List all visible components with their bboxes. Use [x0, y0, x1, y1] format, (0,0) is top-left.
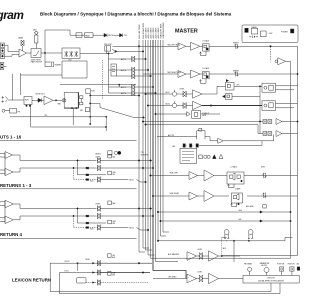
return1 branch wires: [73, 160, 106, 181]
return1 aux pot: [90, 177, 146, 183]
afl mix wire: [157, 134, 197, 137]
svg-text:+: +: [190, 195, 191, 197]
return1 wire R: [13, 168, 97, 172]
phones icon 1: [224, 230, 229, 239]
junction mix left: [138, 46, 140, 48]
master row2 sum amp: [178, 71, 186, 78]
lex R junction: [77, 263, 78, 271]
master row3 out wire: [202, 86, 226, 94]
svg-text:SUB: SUB: [112, 273, 115, 275]
junction fader: [55, 100, 56, 101]
return4 input stubs: [0, 201, 5, 223]
insert loop vertical: [20, 73, 22, 95]
mon jack R: [262, 193, 266, 198]
return4 level label: [96, 201, 116, 205]
master row3 wire AUX1 MASTER: [145, 93, 173, 95]
footswitch box: [77, 278, 98, 283]
phones wires: [248, 238, 249, 241]
svg-text:AUX MASTER: AUX MASTER: [168, 253, 180, 256]
bus SUB R: [163, 22, 169, 232]
input XLR J1: [1, 43, 5, 48]
svg-text:LEVEL: LEVEL: [198, 249, 203, 251]
section divider 1: [0, 139, 137, 141]
channel amp U2: [44, 96, 53, 105]
master row1 out wire: [209, 43, 297, 49]
section divider 2: [0, 188, 137, 190]
post fade wire: [60, 84, 136, 87]
lexret sub switch: [108, 272, 116, 277]
svg-text:+: +: [188, 277, 189, 279]
svg-text:LEX: LEX: [112, 255, 115, 257]
master row1 sum amp: [178, 43, 186, 50]
master row3 amp: [186, 90, 202, 98]
aux pre post box: [111, 64, 116, 76]
phantom 48V: [33, 30, 38, 49]
aux6 pot: [109, 90, 157, 96]
tape feed wires: [142, 121, 263, 134]
svg-text:MUTE: MUTE: [108, 35, 114, 37]
wire mix feed diagonal: [90, 104, 144, 119]
svg-text:MIX LEFT BUS: MIX LEFT BUS: [139, 24, 141, 39]
fade switch: [76, 33, 93, 38]
record amp U5: [270, 46, 291, 65]
bus AUX6: [157, 27, 160, 241]
2tk return jack: [223, 94, 261, 100]
return1 amp L: [5, 152, 13, 159]
wire mic to preamp: [5, 45, 20, 51]
svg-text:AUX 5: AUX 5: [121, 86, 126, 89]
right edge bus: [297, 46, 298, 255]
svg-text:MIX: MIX: [112, 275, 115, 277]
wire preamp to HPF: [27, 52, 32, 54]
pan node: [58, 99, 66, 106]
svg-text:AFL PFL: AFL PFL: [168, 134, 175, 137]
monitor row SUB LEFT: [150, 173, 189, 177]
aux1 pot: [109, 56, 147, 62]
insert jack left: [0, 63, 6, 70]
bus SUB L: [160, 23, 166, 236]
return4 aux pot: [90, 225, 149, 231]
svg-text:PFL: PFL: [45, 115, 48, 117]
wire pan to mix right bus: [117, 50, 143, 52]
master row1 output jack: [200, 39, 210, 51]
svg-text:GAIN: GAIN: [18, 37, 23, 40]
aux out jack: [226, 79, 235, 90]
power supply box: [242, 25, 298, 43]
svg-text:MONITOR: MONITOR: [141, 154, 149, 156]
svg-text:RETURN 4: RETURN 4: [0, 232, 23, 237]
lexicon button 2: [288, 264, 295, 276]
mute switch glyphs: [2, 96, 8, 102]
svg-text:SUB: SUB: [113, 172, 116, 174]
svg-text:INSERT: INSERT: [55, 65, 62, 67]
svg-text:RETURNS 1 - 3: RETURNS 1 - 3: [0, 183, 32, 188]
svg-text:LEXICON: LEXICON: [267, 278, 275, 280]
master row4 out wire thick: [202, 105, 262, 107]
master row2 output jack: [200, 67, 210, 79]
master row4 amp: [186, 101, 202, 109]
svg-text:INSERT: INSERT: [233, 43, 239, 45]
routing junctions: [71, 107, 77, 108]
insert jack: [45, 53, 62, 67]
phones select row: [173, 144, 199, 148]
junction afl: [105, 126, 106, 127]
routing box: [64, 92, 78, 108]
svg-text:gram: gram: [0, 8, 23, 22]
insert return vertical: [11, 74, 13, 100]
svg-text:+: +: [188, 255, 189, 257]
master row4 wire AUX2 MASTER: [147, 105, 172, 107]
svg-text:PFL: PFL: [18, 111, 21, 113]
mute diode D1: [104, 33, 114, 37]
svg-text:POWER: POWER: [281, 31, 288, 33]
wire to fader: [8, 99, 24, 101]
svg-text:AUX 2: AUX 2: [121, 69, 126, 72]
lexret pot L: [97, 270, 150, 276]
junction insert: [44, 52, 45, 53]
speaker box L: [227, 166, 298, 188]
lexret pot FS: [97, 280, 148, 286]
bus AUX1: [144, 27, 152, 250]
bus MIX LEFT: [139, 24, 145, 252]
lexicon send row: [153, 272, 243, 284]
return1 input stubs: [0, 153, 5, 176]
wire line to preamp: [5, 55, 20, 57]
lexicon processor box: [243, 275, 299, 283]
wire diode to amp: [32, 99, 44, 101]
tape out box B: [262, 101, 298, 111]
lexicon button 1: [277, 264, 284, 276]
section divider 3: [0, 237, 137, 239]
mon jack L: [261, 167, 266, 179]
wire sub feed: [90, 95, 140, 97]
svg-text:UTS 1 - 16: UTS 1 - 16: [0, 135, 22, 140]
svg-text:LEX L: LEX L: [65, 271, 70, 273]
fader box: [24, 97, 32, 107]
aux out jacks: [221, 237, 235, 262]
monitor select wire: [199, 141, 262, 146]
wire EQ to pan: [80, 53, 112, 55]
master row2 insert loop: [200, 79, 206, 84]
return1 amp R: [5, 168, 13, 175]
svg-text:AUX 6: AUX 6: [121, 92, 126, 95]
insert loop wire: [21, 74, 63, 76]
return4 pot L: [97, 206, 152, 212]
svg-text:PUSH ON: PUSH ON: [288, 264, 295, 266]
svg-text:AFL: AFL: [173, 145, 176, 148]
wire to mute bus: [45, 30, 84, 53]
svg-text:LEX SEND: LEX SEND: [168, 276, 177, 278]
routing column: [90, 94, 91, 125]
svg-text:PASS FILTER: PASS FILTER: [31, 61, 43, 64]
aux5 pot: [109, 84, 154, 90]
return4 branch wires: [73, 208, 106, 229]
monitor amp L1: [189, 172, 198, 180]
svg-text:SUB LEFT: SUB LEFT: [170, 173, 179, 175]
monitor matrix box: [180, 148, 197, 163]
return1 sub switch: [108, 171, 116, 176]
master row4 level pot: [172, 101, 186, 108]
solo diode D3: [114, 33, 128, 37]
svg-text:SUB RIGHT: SUB RIGHT: [170, 193, 181, 195]
master row1 wire MIX LEFT: [139, 44, 181, 46]
monitor row SUB RIGHT: [152, 193, 189, 197]
svg-text:SUB: SUB: [113, 221, 116, 223]
monitor icons: [199, 154, 223, 158]
svg-text:SUB: SUB: [91, 91, 94, 93]
pan network: [105, 46, 118, 54]
phones icon 2: [248, 230, 253, 239]
master row1 amp: [186, 42, 200, 50]
afl buffer U10: [205, 135, 274, 144]
dashed control line: [102, 60, 104, 99]
master row1 insert loop: [200, 51, 206, 56]
pfl wire: [10, 115, 107, 131]
speaker box R: [231, 188, 298, 207]
return1 pot L: [97, 158, 152, 164]
two track stub: [234, 85, 262, 87]
EQ block: [62, 48, 80, 62]
svg-text:LEXICON RETURN: LEXICON RETURN: [12, 278, 51, 283]
svg-text:LEX R: LEX R: [65, 261, 71, 263]
tape link vertical: [259, 86, 260, 134]
svg-text:PFL: PFL: [124, 35, 127, 37]
lex out R wire: [50, 263, 271, 291]
bus MIX RIGHT: [143, 22, 149, 248]
wire HPF to EQ: [41, 52, 62, 54]
tape out box A: [262, 83, 298, 92]
wire amp to pan node: [53, 99, 62, 101]
fader loop box: [62, 61, 87, 78]
aux2 pot: [109, 67, 149, 73]
svg-text:LEVEL: LEVEL: [96, 203, 101, 205]
mix switch: [80, 108, 90, 112]
bus AUX3: [149, 27, 152, 258]
return1 pot R: [97, 165, 154, 171]
gain pot RV1: [18, 37, 24, 52]
3.5mm jack row: [155, 111, 220, 119]
lexicon knob PARAMETER: [260, 262, 270, 275]
lexret arrows: [93, 262, 95, 283]
return1 level label: [96, 154, 116, 158]
svg-text:INSERT: INSERT: [233, 70, 239, 72]
svg-text:LEVEL: LEVEL: [180, 89, 185, 91]
wire pan to mix left bus: [113, 45, 140, 47]
wire routing down: [72, 108, 74, 125]
svg-text:EQ: EQ: [69, 60, 72, 62]
return4 wire L: [13, 204, 96, 209]
return4 sub switch: [108, 220, 116, 225]
aux master row: [168, 249, 240, 261]
monitor amp R2: [198, 191, 230, 202]
sub switch: [86, 89, 95, 94]
lexret pot R: [97, 260, 152, 266]
preamp U1: [19, 49, 27, 57]
monitor source label: [141, 152, 149, 156]
bus AUX5: [154, 27, 178, 261]
svg-text:SUB: SUB: [239, 210, 242, 212]
return4 wire R: [13, 216, 96, 220]
svg-text:DIGITAL EFFECTS PROCESSOR: DIGITAL EFFECTS PROCESSOR: [258, 279, 285, 282]
svg-text:+: +: [190, 174, 191, 176]
master row3 level pot: [172, 89, 186, 97]
aux send row2: [160, 219, 291, 222]
feed to lexicon L: [222, 255, 298, 257]
aux feed vertical: [108, 54, 110, 94]
afl loop: [197, 128, 205, 139]
svg-text:LEVEL: LEVEL: [198, 272, 203, 274]
svg-text:AUX 1: AUX 1: [121, 58, 126, 61]
svg-text:+: +: [179, 45, 180, 47]
aux3 pot: [116, 73, 151, 79]
junction mix right: [142, 51, 144, 53]
monitor amp R1: [189, 192, 198, 200]
level trim row: [95, 151, 121, 156]
master row2 wire MIX RIGHT: [143, 72, 182, 74]
bus bottom feed: [153, 271, 186, 279]
svg-text:LEVEL: LEVEL: [85, 259, 90, 261]
lex out L wire: [59, 273, 280, 294]
pfl switch: [2, 109, 21, 114]
bus AUX2: [147, 27, 155, 255]
master row2 amp: [186, 70, 200, 78]
return1 wire L: [13, 155, 97, 161]
aux send row1: [157, 205, 290, 214]
aux out feed wire: [157, 237, 292, 241]
svg-text:LEVEL: LEVEL: [95, 154, 101, 156]
return4 pot R: [97, 213, 154, 219]
lexicon LED: [296, 264, 300, 271]
return4 amp R: [5, 216, 13, 224]
monitor amp L2: [198, 170, 228, 181]
tape in RCA L: [263, 119, 298, 125]
master row2 out wire: [209, 70, 297, 76]
input jack J3: [1, 54, 5, 59]
solo diode D2: [38, 98, 42, 102]
bus AUX4: [152, 27, 155, 270]
junction pan: [108, 53, 109, 54]
svg-text:PUSH ON: PUSH ON: [277, 264, 284, 266]
lexicon knob PROGRAM: [244, 263, 253, 276]
svg-text:MASTER: MASTER: [175, 29, 198, 35]
svg-text:MUTE SOLO: MUTE SOLO: [36, 93, 46, 95]
svg-text:SUB RIGHT BUS: SUB RIGHT BUS: [163, 22, 165, 39]
HPF filter: [31, 49, 43, 64]
svg-text:Block Diagramm / Synopique / D: Block Diagramm / Synopique / Diagramma a…: [40, 12, 232, 17]
right inner bus: [290, 61, 292, 258]
tape in RCA R: [263, 131, 298, 137]
lexret level label: [85, 254, 115, 261]
svg-text:+: +: [179, 73, 180, 75]
svg-text:MIX: MIX: [113, 174, 116, 176]
svg-text:MIX: MIX: [113, 223, 116, 225]
feed to lexicon R: [151, 257, 291, 259]
afl wire: [31, 105, 106, 128]
input jack J2: [1, 49, 5, 54]
wire fade to mute: [93, 34, 104, 36]
return4 amp L: [5, 200, 13, 208]
routing pins: [80, 96, 83, 105]
